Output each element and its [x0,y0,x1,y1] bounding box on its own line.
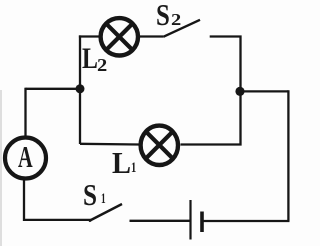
label S2 [156,0,170,30]
wire left top horizontal [26,88,81,90]
wire lamp L2 to switch S2 pivot [140,35,164,37]
lamp L2 [101,18,138,55]
switch S1 blade [89,204,122,221]
label S1 [83,179,97,210]
wire top branch to lamp L2 [79,35,100,37]
wire left branch vertical through node [79,35,81,144]
switch S2 blade [163,20,200,37]
wire left rail vertical to ammeter [24,88,26,136]
label L1 [112,147,131,178]
lamp L1 [141,126,178,165]
wire right horizontal from node [239,90,288,92]
node left junction [76,84,85,93]
node right junction [235,87,244,96]
wire middle branch left of lamp L1 [80,143,140,146]
label ammeter A [18,141,33,172]
wire right vertical rail [287,90,289,221]
wire node down to middle branch [181,90,241,144]
ammeter A circle [5,138,46,179]
wire S1 contact to battery [130,220,190,222]
label L2 [82,44,98,74]
wire bottom right to battery [203,220,290,222]
wire S2 contact to right corner [210,37,241,93]
battery cell [191,200,203,240]
wire ammeter bottom to bottom-left corner [24,180,90,222]
scan shadow left edge [0,90,2,246]
